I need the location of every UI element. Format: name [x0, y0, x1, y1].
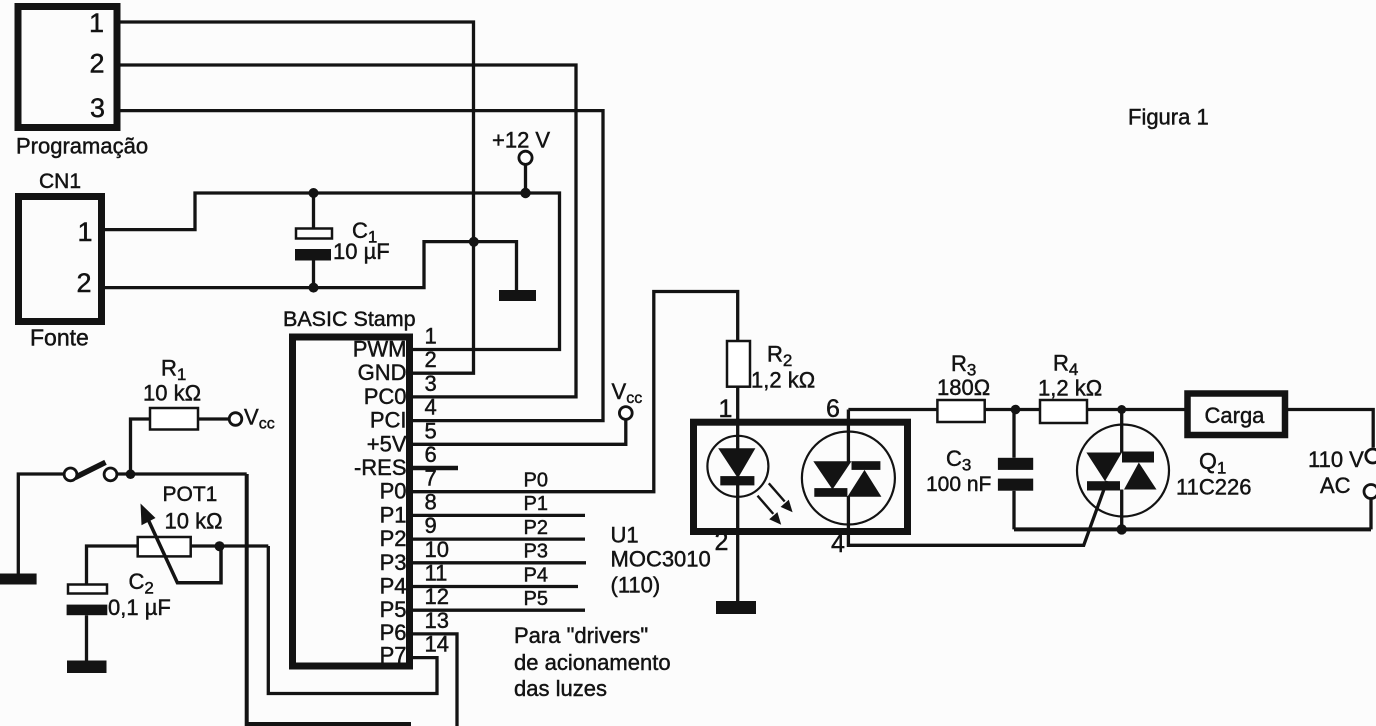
- svg-text:4: 4: [831, 530, 845, 558]
- svg-text:GND: GND: [358, 360, 407, 385]
- svg-text:das luzes: das luzes: [514, 676, 607, 701]
- svg-text:3: 3: [90, 93, 105, 123]
- svg-text:12: 12: [425, 584, 449, 609]
- svg-text:0,1 µF: 0,1 µF: [108, 595, 171, 620]
- svg-text:PC0: PC0: [364, 384, 407, 409]
- svg-text:P3: P3: [380, 550, 407, 575]
- svg-text:1,2 kΩ: 1,2 kΩ: [1038, 376, 1102, 401]
- svg-text:11C226: 11C226: [1176, 475, 1251, 500]
- svg-text:2: 2: [76, 268, 91, 298]
- svg-text:R2: R2: [767, 342, 792, 371]
- svg-text:4: 4: [425, 395, 437, 420]
- svg-text:P4: P4: [524, 564, 548, 586]
- svg-text:1: 1: [719, 395, 733, 423]
- svg-text:Carga: Carga: [1205, 403, 1266, 428]
- svg-text:5: 5: [425, 418, 437, 443]
- svg-text:P0: P0: [380, 479, 407, 504]
- svg-text:2: 2: [715, 528, 729, 556]
- svg-text:Vcc: Vcc: [612, 379, 643, 407]
- svg-text:P7: P7: [380, 643, 407, 668]
- svg-text:+5V: +5V: [367, 431, 407, 456]
- svg-text:P3: P3: [524, 541, 548, 563]
- svg-text:3: 3: [425, 371, 437, 396]
- svg-text:(110): (110): [611, 573, 661, 598]
- svg-text:P6: P6: [380, 620, 407, 645]
- svg-text:1: 1: [89, 8, 104, 38]
- svg-text:POT1: POT1: [163, 483, 218, 506]
- svg-text:P5: P5: [524, 588, 548, 610]
- svg-text:10: 10: [425, 537, 449, 562]
- svg-text:14: 14: [425, 632, 449, 657]
- svg-text:P1: P1: [524, 493, 548, 515]
- svg-text:10 kΩ: 10 kΩ: [143, 381, 201, 406]
- svg-text:Fonte: Fonte: [30, 325, 89, 351]
- svg-text:2: 2: [89, 49, 104, 79]
- svg-text:110 V: 110 V: [1308, 447, 1364, 472]
- svg-text:P1: P1: [380, 502, 407, 527]
- svg-text:9: 9: [425, 513, 437, 538]
- svg-text:Programação: Programação: [16, 134, 148, 159]
- svg-text:Figura 1: Figura 1: [1128, 105, 1209, 130]
- svg-text:6: 6: [826, 395, 840, 423]
- svg-text:10 kΩ: 10 kΩ: [165, 509, 223, 534]
- svg-text:Q1: Q1: [1199, 448, 1226, 478]
- svg-text:CN1: CN1: [39, 170, 81, 193]
- svg-text:MOC3010: MOC3010: [611, 547, 711, 572]
- svg-text:PWM: PWM: [353, 337, 407, 362]
- svg-text:P2: P2: [524, 517, 548, 539]
- svg-text:PCI: PCI: [370, 408, 407, 433]
- svg-text:1: 1: [77, 217, 92, 247]
- svg-text:P0: P0: [524, 470, 548, 492]
- svg-text:AC: AC: [1320, 473, 1351, 498]
- svg-text:-RES: -RES: [354, 455, 407, 480]
- svg-text:10 µF: 10 µF: [333, 239, 390, 264]
- svg-text:BASIC Stamp: BASIC Stamp: [283, 307, 416, 331]
- svg-text:U1: U1: [611, 523, 639, 548]
- svg-text:2: 2: [425, 347, 437, 372]
- svg-text:Vcc: Vcc: [244, 405, 275, 433]
- svg-text:1,2 kΩ: 1,2 kΩ: [751, 368, 815, 393]
- svg-text:13: 13: [425, 608, 449, 633]
- svg-text:C2: C2: [129, 569, 154, 598]
- svg-text:11: 11: [425, 561, 448, 586]
- svg-text:1: 1: [425, 324, 437, 349]
- svg-text:P2: P2: [380, 526, 407, 551]
- svg-text:6: 6: [425, 442, 437, 467]
- svg-text:de acionamento: de acionamento: [514, 650, 671, 675]
- svg-text:+12 V: +12 V: [492, 128, 550, 153]
- svg-text:180Ω: 180Ω: [937, 375, 990, 400]
- svg-text:7: 7: [425, 466, 437, 491]
- svg-text:C3: C3: [946, 446, 971, 475]
- svg-text:8: 8: [425, 489, 437, 514]
- svg-text:100 nF: 100 nF: [926, 473, 991, 496]
- svg-text:Para "drivers": Para "drivers": [514, 623, 648, 648]
- svg-text:P5: P5: [380, 597, 407, 622]
- svg-text:P4: P4: [380, 574, 407, 599]
